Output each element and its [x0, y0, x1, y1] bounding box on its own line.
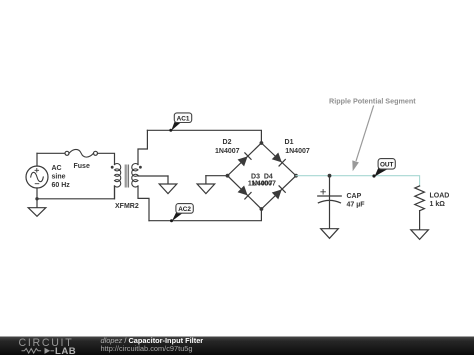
resistor LOAD	[415, 186, 425, 211]
ground at center tap	[159, 176, 177, 194]
LOAD value labels	[430, 193, 450, 208]
footer title text	[101, 336, 204, 353]
wire capacitor to ground	[329, 196, 331, 229]
svg-text:AC: AC	[52, 165, 62, 172]
wire to capacitor	[329, 176, 331, 196]
svg-text:60 Hz: 60 Hz	[52, 182, 71, 189]
svg-text:1 kΩ: 1 kΩ	[430, 201, 446, 208]
svg-text:D1: D1	[285, 139, 294, 146]
wire OUT net (highlighted ripple segment)	[296, 176, 420, 186]
svg-text:1N4007: 1N4007	[285, 148, 310, 155]
wire V1 to fuse	[37, 152, 65, 154]
annotation arrow	[352, 106, 373, 171]
svg-text:sine: sine	[52, 173, 66, 180]
fuse F1	[65, 149, 98, 157]
wire secondary center tap	[138, 175, 168, 177]
wire V1 bottom	[36, 188, 38, 199]
svg-text:D2: D2	[223, 139, 232, 146]
footer logo CIRCUIT LAB	[19, 337, 77, 355]
svg-text:LOAD: LOAD	[430, 193, 450, 200]
V1 value label "AC sine 60 Hz"	[52, 165, 71, 189]
node junction bridge left	[226, 174, 230, 178]
D3 D4 labels	[248, 173, 276, 187]
diode D3	[238, 185, 252, 199]
node junction bridge bottom	[260, 207, 264, 211]
voltage source V1 (AC sine 60 Hz)	[26, 166, 48, 188]
D2 labels	[215, 139, 240, 155]
ground at bridge left	[197, 176, 215, 194]
D1 labels	[285, 139, 310, 155]
wire secondary bottom to bottom rail	[138, 186, 149, 221]
ground below V1	[28, 199, 46, 217]
svg-text:XFMR2: XFMR2	[115, 203, 139, 210]
svg-text:1N4007: 1N4007	[251, 180, 276, 187]
svg-text:1N4007: 1N4007	[215, 148, 240, 155]
node junction at capacitor tap	[328, 174, 332, 178]
svg-text:AC2: AC2	[178, 206, 191, 213]
svg-text:47 µF: 47 µF	[347, 201, 366, 208]
svg-text:LAB: LAB	[55, 346, 76, 355]
svg-text:http://circuitlab.com/c97tu5g: http://circuitlab.com/c97tu5g	[101, 344, 193, 353]
CAP value labels	[347, 193, 366, 208]
wire secondary top to top rail	[138, 130, 147, 164]
wire bottom rail to transformer primary	[37, 186, 115, 199]
wire transformer primary bottom	[114, 186, 116, 199]
diode D4	[272, 186, 286, 200]
ground below capacitor	[321, 229, 339, 239]
bridge diamond wires	[228, 143, 297, 209]
node junction bridge top	[260, 141, 264, 145]
node flag AC2	[170, 204, 193, 223]
svg-text:OUT: OUT	[380, 162, 394, 169]
wire V1 top	[36, 153, 38, 166]
node junction bridge right	[294, 174, 298, 178]
transformer XFMR2	[111, 163, 142, 187]
wire LOAD to ground	[419, 211, 421, 230]
footer bar	[0, 337, 474, 355]
diode D1	[272, 152, 286, 166]
node junction at V1 bottom	[35, 197, 38, 200]
svg-text:AC1: AC1	[177, 115, 190, 122]
wire top rail AC1	[147, 130, 261, 143]
wire bridge left to ground	[206, 175, 228, 177]
svg-text:Fuse: Fuse	[74, 163, 90, 170]
annotation "Ripple Potential Segment"	[329, 97, 416, 106]
F1 label "Fuse"	[74, 163, 90, 170]
node flag OUT	[372, 159, 395, 178]
wire bottom rail AC2	[149, 209, 261, 221]
svg-text:D4: D4	[264, 173, 273, 180]
svg-text:CAP: CAP	[347, 193, 362, 200]
XFMR2 label	[115, 203, 139, 210]
ground below LOAD	[411, 230, 429, 240]
svg-text:Ripple Potential Segment: Ripple Potential Segment	[329, 97, 416, 106]
node flag AC1	[169, 113, 191, 132]
diode D2	[238, 153, 252, 167]
wire fuse to transformer	[98, 153, 115, 164]
capacitor CAP (polarized)	[318, 190, 341, 203]
svg-text:D3: D3	[251, 173, 260, 180]
